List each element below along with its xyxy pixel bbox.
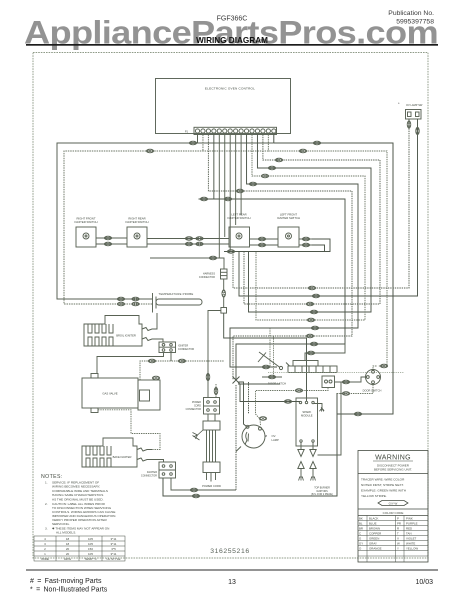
- svg-text:P1: P1: [185, 130, 189, 134]
- svg-text:20: 20: [66, 552, 70, 556]
- svg-text:13: 13: [228, 579, 236, 586]
- svg-text:18: 18: [66, 537, 70, 541]
- svg-text:CONNECTOR: CONNECTOR: [186, 408, 202, 411]
- svg-text:3*11: 3*11: [111, 552, 117, 556]
- svg-text:OV LAMP SW: OV LAMP SW: [406, 103, 423, 107]
- wires S3-S4: [250, 239, 279, 245]
- svg-text:SERVICING.: SERVICING.: [52, 522, 70, 526]
- electronic oven control U1: [156, 79, 291, 134]
- svg-text:3*5: 3*5: [111, 547, 116, 551]
- svg-text:(B.S. FOR 2 PIECE): (B.S. FOR 2 PIECE): [311, 493, 333, 496]
- bake igniter body: [82, 438, 137, 467]
- svg-text:WARNING: WARNING: [375, 455, 411, 462]
- svg-text:YELLOW STRIPE.: YELLOW STRIPE.: [361, 494, 387, 498]
- connector on L2: [146, 149, 153, 153]
- svg-text:ELECTRONIC OVEN CONTROL: ELECTRONIC OVEN CONTROL: [205, 87, 255, 91]
- wire y361 gas valve to harness: [140, 361, 224, 380]
- EOC connector strip P1: [194, 127, 277, 134]
- door latch lever: [258, 352, 290, 370]
- temperature probe plug bar: [153, 293, 157, 313]
- svg-text:IGNITER SWITCH: IGNITER SWITCH: [277, 216, 300, 220]
- svg-text:UL STYLE: UL STYLE: [106, 557, 120, 561]
- svg-text:# = Fast-moving Parts: # = Fast-moving Parts: [30, 578, 102, 585]
- svg-text:IGNITER SWITCH: IGNITER SWITCH: [227, 216, 250, 220]
- wire net L1: pin1 left-down to temperature probe: [57, 135, 274, 300]
- wire net C7: pin3 cascade to latch crossing: [208, 135, 352, 381]
- power cord plug: [203, 462, 220, 482]
- svg-text:105: 105: [88, 537, 93, 541]
- wire net C6: pin10 cascade to door latch lever: [230, 135, 358, 368]
- svg-text:BROWN: BROWN: [369, 527, 380, 531]
- wire door switch left to spark area: [318, 382, 342, 455]
- svg-text:IGNITER SWITCH: IGNITER SWITCH: [125, 220, 148, 224]
- svg-text:OV.: OV.: [272, 434, 277, 438]
- svg-text:W: W: [397, 542, 400, 546]
- svg-text:18: 18: [66, 542, 70, 546]
- wire door switch bottom: [337, 385, 373, 394]
- svg-text:GY: GY: [359, 542, 363, 546]
- spark outputs to top burner ignitors: [298, 442, 316, 477]
- svg-text:CONNECTOR: CONNECTOR: [178, 348, 194, 351]
- wire latch box to door switch: [335, 377, 366, 382]
- svg-text:COLOR CODE: COLOR CODE: [383, 511, 404, 515]
- feed to J3 right: [215, 384, 217, 398]
- wire rung extension to latch top block: [305, 344, 345, 361]
- wire lamp bottom to y490: [236, 447, 241, 452]
- broil igniter terminals: [142, 313, 163, 342]
- svg-text:10/03: 10/03: [415, 579, 433, 586]
- svg-text:BLACK: BLACK: [369, 517, 379, 521]
- wire latch box to oven lamp right: [256, 388, 329, 426]
- svg-text:TEMPERATURE PROBE: TEMPERATURE PROBE: [159, 292, 194, 296]
- door latch cell row: [288, 366, 337, 373]
- igniter connector J1: [159, 342, 176, 353]
- footer legend: [30, 578, 433, 594]
- door switch S5: [366, 370, 381, 385]
- door latch lower connector: [262, 376, 282, 378]
- svg-text:TRACER WIRE: WIRE COLOR: TRACER WIRE: WIRE COLOR: [361, 478, 405, 482]
- wire from node to spark module center: [224, 313, 307, 401]
- svg-text:1.: 1.: [45, 481, 48, 485]
- svg-text:BROIL IGNITER: BROIL IGNITER: [116, 334, 136, 338]
- svg-text:BEFORE SERVICING UNIT.: BEFORE SERVICING UNIT.: [374, 468, 412, 472]
- wires S4 output: [299, 239, 312, 245]
- spark module U2: [296, 398, 318, 446]
- igniter connector J2: [159, 462, 176, 478]
- svg-text:RED: RED: [406, 527, 412, 531]
- svg-text:T: T: [397, 532, 399, 536]
- svg-text:NOTED FIRST, STRIPE NEXT.: NOTED FIRST, STRIPE NEXT.: [361, 483, 404, 487]
- svg-text:R: R: [397, 527, 399, 531]
- wire S2 to S3: [147, 239, 229, 245]
- svg-text:BL: BL: [359, 522, 363, 526]
- svg-text:C: C: [359, 532, 361, 536]
- wire net C5: pin11 cascade to ladder rung y320: [252, 135, 365, 321]
- svg-text:20: 20: [66, 547, 70, 551]
- grounds at burner ignitors: [299, 477, 316, 481]
- wire from node to power cord connector: [208, 311, 221, 398]
- svg-text:CONNECTOR: CONNECTOR: [199, 276, 215, 279]
- wire spark module to ground: [314, 404, 322, 409]
- temperature probe body: [156, 299, 202, 305]
- door latch switch box: [322, 376, 335, 388]
- harness connector: [221, 269, 228, 308]
- svg-text:ORANGE: ORANGE: [369, 547, 382, 551]
- svg-text:3*11: 3*11: [111, 542, 117, 546]
- wire rung y296 to oven lamp switch right: [239, 119, 418, 296]
- svg-text:WIRING DIAGRAM: WIRING DIAGRAM: [196, 36, 268, 45]
- connector pair below harness: [222, 290, 226, 297]
- svg-text:316255216: 316255216: [210, 548, 249, 555]
- svg-text:WIRE: WIRE: [41, 557, 49, 561]
- svg-text:V: V: [397, 537, 399, 541]
- svg-text:MODULE: MODULE: [301, 414, 313, 418]
- svg-text:YELLOW: YELLOW: [406, 547, 418, 551]
- svg-text:AS THE ORIGINAL MUST BE USED.: AS THE ORIGINAL MUST BE USED.: [52, 497, 104, 501]
- junction node to probe branch: [221, 308, 227, 314]
- wire net C8: pin4 cascade to latch crossing: [199, 135, 346, 381]
- wire taps to latch lever: [270, 328, 274, 377]
- svg-text:2.: 2.: [45, 502, 48, 506]
- svg-text:AWG: AWG: [64, 557, 72, 561]
- notes block: [41, 474, 116, 534]
- wire y258 to harness: [150, 258, 224, 269]
- wire J2 to lamp branch y490: [171, 478, 236, 490]
- svg-text:EXAMPLE: GREEN WIRE WITH: EXAMPLE: GREEN WIRE WITH: [361, 489, 406, 493]
- svg-text:3*11: 3*11: [111, 537, 117, 541]
- svg-text:150: 150: [88, 547, 93, 551]
- svg-text:Y: Y: [397, 547, 399, 551]
- gas valve V1: [82, 374, 160, 413]
- tracer example symbol: [378, 501, 408, 506]
- oven lamp B1: [242, 425, 265, 448]
- svg-text:NOTES:: NOTES:: [41, 474, 63, 480]
- bake igniter terminals: [137, 448, 164, 462]
- wire gauge table: [34, 536, 125, 561]
- svg-text:* = Non-Illustrated Parts: * = Non-Illustrated Parts: [30, 587, 108, 594]
- svg-text:SPARK: SPARK: [302, 410, 311, 414]
- wire spark module left feed: [238, 384, 301, 402]
- svg-text:BK: BK: [359, 517, 363, 521]
- svg-text:BAKE IGNITER: BAKE IGNITER: [113, 455, 132, 459]
- broil igniter teeth: [88, 324, 113, 346]
- power cord strain relief: [203, 414, 220, 430]
- bake igniter teeth: [86, 446, 111, 467]
- wire net C1: pin15 right cascade to spark module and bake connector: [163, 135, 393, 497]
- warning box: [358, 451, 428, 563]
- svg-text:PURPLE: PURPLE: [406, 522, 418, 526]
- wire gas valve bottom tab to bake igniter: [98, 410, 160, 450]
- svg-text:BR: BR: [359, 527, 363, 531]
- igniter switch left front S4: [278, 227, 299, 247]
- svg-text:ALL MODELS.: ALL MODELS.: [56, 530, 76, 534]
- wire net C2: pin14 cascade to door switch: [268, 135, 387, 370]
- svg-text:LAMP: LAMP: [272, 438, 280, 442]
- diagram border frame: [33, 53, 428, 559]
- door latch crossing X: [233, 377, 249, 491]
- wire rung y288 to oven lamp switch left: [233, 119, 409, 288]
- svg-text:GRAY: GRAY: [369, 542, 377, 546]
- svg-text:IGNITER SWITCH: IGNITER SWITCH: [74, 220, 97, 224]
- wire switch return y251.5: [224, 239, 330, 252]
- svg-text:VIOLET: VIOLET: [406, 537, 417, 541]
- svg-text:PINK: PINK: [406, 517, 413, 521]
- wire net L2: pin2 left-down to temperature probe: [64, 135, 268, 305]
- broil igniter body: [84, 316, 142, 347]
- svg-text:DOOR LATCH: DOOR LATCH: [268, 382, 286, 386]
- svg-text:DOOR SWITCH: DOOR SWITCH: [363, 389, 382, 393]
- wire net C3: pin13 cascade to ladder rung y304: [244, 135, 380, 305]
- svg-text:TAN: TAN: [406, 532, 412, 536]
- svg-text:105: 105: [88, 542, 93, 546]
- svg-text:CONNECTOR: CONNECTOR: [141, 475, 157, 478]
- svg-text:BLUE: BLUE: [369, 522, 377, 526]
- power cord connector J3: [204, 398, 220, 415]
- connector pair on L1 at probe: [117, 297, 124, 301]
- svg-text:3.: 3.: [45, 526, 48, 530]
- svg-text:POWER CORD: POWER CORD: [202, 484, 221, 488]
- connector pair on L2 at probe: [117, 302, 124, 306]
- svg-text:PR: PR: [397, 522, 401, 526]
- svg-text:WHITE: WHITE: [406, 542, 415, 546]
- wire J1 to gas valve tab: [97, 353, 171, 374]
- warning tracer wire text: [361, 478, 406, 499]
- header rule: [26, 44, 438, 46]
- wires S1-S2: [96, 238, 127, 244]
- connector on L1: [189, 141, 196, 145]
- ground at spark module: [319, 407, 324, 411]
- igniter switch right rear S2: [127, 227, 147, 247]
- svg-text:GREEN: GREEN: [369, 537, 379, 541]
- svg-text:105: 105: [88, 552, 93, 556]
- pin drops p5-p9: [219, 135, 241, 259]
- chassis dashed line: [268, 372, 404, 374]
- svg-text:P: P: [397, 517, 399, 521]
- wire net C4: pin12 cascade to ladder rung y312: [249, 135, 372, 313]
- door latch top block: [293, 361, 318, 367]
- svg-text:GAS VALVE: GAS VALVE: [102, 392, 117, 396]
- power cord wires: [207, 430, 216, 462]
- svg-text:TEMP °C: TEMP °C: [84, 557, 97, 561]
- svg-text:G/Y-W: G/Y-W: [389, 501, 398, 505]
- igniter switch right front S1: [76, 227, 96, 247]
- footer rule: [26, 570, 438, 571]
- igniter switch left rear S3: [229, 227, 250, 247]
- publication number: [388, 10, 434, 26]
- svg-text:COPPER: COPPER: [369, 532, 381, 536]
- ground at strain relief: [193, 430, 204, 440]
